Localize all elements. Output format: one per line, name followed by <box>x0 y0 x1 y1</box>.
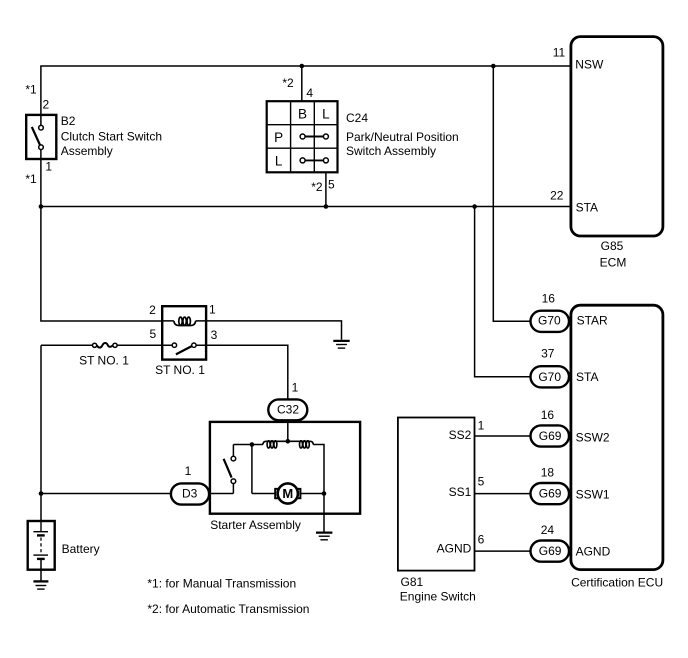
junction node starter coil center <box>286 439 291 444</box>
wire relay coil line <box>162 320 206 322</box>
svg-text:G70: G70 <box>538 370 561 384</box>
svg-text:1: 1 <box>478 419 485 433</box>
connector G69 AGND <box>531 541 570 562</box>
wire battery to ground <box>40 560 42 581</box>
svg-text:11: 11 <box>553 46 566 60</box>
C24 contact L row <box>300 158 328 163</box>
wire left vertical upper to B2 pin 2 <box>40 66 42 125</box>
svg-text:C32: C32 <box>277 402 299 416</box>
svg-text:L: L <box>322 106 330 121</box>
junction node starter coil left <box>250 442 255 447</box>
relay coil <box>174 317 196 325</box>
wire starter motor line left <box>252 445 276 494</box>
wire C32 to starter coil junction <box>287 419 289 441</box>
svg-text:D3: D3 <box>182 487 198 501</box>
svg-text:22: 22 <box>550 188 564 202</box>
wire fuse line left <box>41 344 93 346</box>
wire relay switch line <box>162 344 206 346</box>
svg-text:*1: for Manual Transmission: *1: for Manual Transmission <box>147 577 296 591</box>
starter coil 2 (hold-in winding) <box>300 441 310 448</box>
svg-text:SS2: SS2 <box>449 428 472 442</box>
svg-text:SS1: SS1 <box>449 485 472 499</box>
svg-text:1: 1 <box>185 464 192 478</box>
connector C32 <box>268 399 307 420</box>
C24 park/neutral position switch table <box>267 101 338 172</box>
svg-text:G81: G81 <box>401 575 424 589</box>
junction node top/C24 <box>300 64 305 69</box>
svg-text:4: 4 <box>306 86 313 100</box>
svg-text:2: 2 <box>43 97 50 111</box>
svg-text:Assembly: Assembly <box>61 144 113 158</box>
svg-text:G69: G69 <box>539 544 562 558</box>
svg-text:24: 24 <box>541 523 555 537</box>
svg-text:16: 16 <box>541 408 555 422</box>
svg-text:ST NO. 1: ST NO. 1 <box>79 354 129 368</box>
wire STA branch to G70 STA <box>475 207 531 377</box>
svg-text:*1: *1 <box>25 83 37 97</box>
svg-text:Certification ECU: Certification ECU <box>571 576 663 590</box>
relay switch contacts <box>172 343 196 354</box>
svg-text:P: P <box>274 130 283 145</box>
connector G69 SSW1 <box>531 483 570 504</box>
wire battery vertical <box>40 345 42 521</box>
svg-text:18: 18 <box>541 466 555 480</box>
svg-text:*2: for Automatic Transmission: *2: for Automatic Transmission <box>147 602 309 616</box>
svg-text:STA: STA <box>576 370 598 384</box>
svg-text:AGND: AGND <box>576 545 611 559</box>
svg-text:G85: G85 <box>601 239 624 253</box>
svg-text:2: 2 <box>149 303 156 317</box>
svg-text:Clutch Start Switch: Clutch Start Switch <box>61 130 162 144</box>
wire SS1 to G69 <box>475 493 532 495</box>
svg-text:B2: B2 <box>61 114 76 128</box>
svg-text:Battery: Battery <box>62 542 100 556</box>
starter magnetic switch contacts <box>224 456 236 483</box>
wire relay pin 3 to C32 <box>206 345 288 400</box>
svg-text:5: 5 <box>328 178 335 192</box>
battery box <box>28 521 55 570</box>
wire SS2 to G69 <box>475 435 532 437</box>
svg-text:AGND: AGND <box>437 542 472 556</box>
svg-text:M: M <box>282 486 293 501</box>
ECM box G85 <box>571 37 663 236</box>
svg-text:*2: *2 <box>282 76 294 90</box>
connector G70 STAR <box>531 311 570 332</box>
connector G70 STA <box>531 366 570 387</box>
svg-text:ECM: ECM <box>600 255 627 269</box>
svg-text:SSW1: SSW1 <box>576 488 610 502</box>
svg-text:Engine Switch: Engine Switch <box>400 589 476 603</box>
svg-text:G69: G69 <box>539 429 562 443</box>
clutch start switch B2 box <box>26 115 56 159</box>
wire C24 pin 4 <box>301 66 303 101</box>
svg-text:1: 1 <box>292 381 299 395</box>
wire D3 line <box>41 493 233 495</box>
svg-text:L: L <box>275 154 283 169</box>
svg-text:*2: *2 <box>311 180 323 194</box>
wire fuse line right <box>117 344 162 346</box>
wire relay pin 1 to ground <box>206 321 341 340</box>
starter assembly box <box>210 422 360 514</box>
junction node battery/D3 <box>39 491 44 496</box>
svg-text:6: 6 <box>478 533 485 547</box>
svg-text:NSW: NSW <box>575 58 604 72</box>
battery cells <box>33 521 48 559</box>
svg-text:Park/Neutral Position: Park/Neutral Position <box>346 130 459 144</box>
wire starter coil line left <box>233 444 263 446</box>
svg-text:G69: G69 <box>539 487 562 501</box>
svg-text:ST NO. 1: ST NO. 1 <box>155 363 205 377</box>
wire starter switch lower <box>232 484 234 494</box>
svg-text:16: 16 <box>542 292 556 306</box>
wire starter motor line right <box>300 493 324 495</box>
certification ECU box <box>571 305 663 569</box>
svg-text:1: 1 <box>209 302 216 316</box>
svg-text:C24: C24 <box>346 111 368 125</box>
wire starter right vertical to ground <box>313 445 324 533</box>
svg-text:1: 1 <box>45 159 52 173</box>
connector G69 SSW2 <box>531 425 570 446</box>
svg-text:3: 3 <box>211 328 218 342</box>
relay ST NO.1 box <box>162 306 206 359</box>
ground (battery) <box>33 581 48 589</box>
wire B2 pin 1 down to bus2 and to relay coil branch <box>41 150 162 321</box>
ground (starter) <box>316 533 332 540</box>
wire bus2 <box>41 206 571 208</box>
wire NSW branch to G70 STAR <box>493 66 530 321</box>
C24 contact P row <box>300 134 328 139</box>
svg-text:5: 5 <box>149 327 156 341</box>
junction node bus2 left <box>39 204 44 209</box>
motor M <box>275 483 300 503</box>
svg-text:STA: STA <box>576 200 598 214</box>
svg-text:Starter Assembly: Starter Assembly <box>210 518 301 532</box>
svg-text:5: 5 <box>478 475 485 489</box>
starter coil 1 (pull-in winding) <box>263 441 313 448</box>
svg-text:B: B <box>298 106 307 121</box>
wire top bus <box>40 65 571 67</box>
svg-text:G70: G70 <box>538 314 561 328</box>
engine switch box G81 <box>398 418 475 571</box>
wire AGND to G69 <box>475 550 532 552</box>
ground (relay pin 1) <box>333 341 349 348</box>
junction node top/NSW branch <box>491 64 496 69</box>
svg-text:Switch Assembly: Switch Assembly <box>346 144 436 158</box>
svg-text:*1: *1 <box>25 172 37 186</box>
junction node bus2/C24 <box>324 204 329 209</box>
svg-text:37: 37 <box>541 346 555 360</box>
fuse ST NO. 1 <box>93 343 118 348</box>
B2 switch contacts <box>32 125 44 149</box>
connector D3 <box>171 483 209 504</box>
svg-text:SSW2: SSW2 <box>576 431 610 445</box>
junction node bus2/STA branch <box>472 204 477 209</box>
wire C24 pin 5 <box>325 172 327 206</box>
svg-text:STAR: STAR <box>577 314 608 328</box>
wire starter switch upper <box>232 445 234 456</box>
junction node starter motor right <box>322 491 327 496</box>
